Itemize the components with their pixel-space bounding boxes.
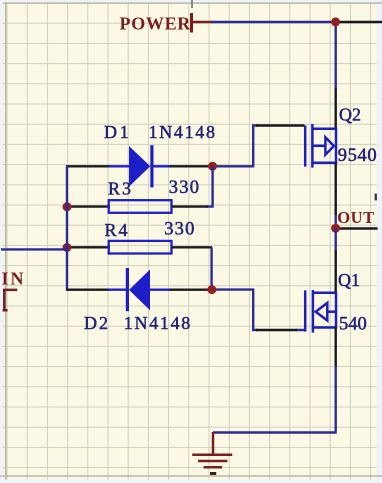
svg-text:R4: R4 xyxy=(105,220,130,240)
port OUT xyxy=(337,194,377,228)
svg-text:D1: D1 xyxy=(104,122,131,142)
svg-text:POWER: POWER xyxy=(120,13,192,33)
wire power rail navy xyxy=(211,21,336,23)
wire R3 row black right xyxy=(172,205,209,207)
resistor R4 xyxy=(109,241,172,254)
wire R3 row black left xyxy=(66,205,110,207)
resistor R3 xyxy=(109,200,172,213)
svg-text:540: 540 xyxy=(339,315,367,335)
port POWER xyxy=(120,13,213,33)
wire OUT to Q1 navy xyxy=(335,228,337,251)
pin Q1 gate black xyxy=(256,329,297,331)
svg-text:330: 330 xyxy=(169,178,200,198)
svg-text:R3: R3 xyxy=(108,179,133,199)
wire D2 row black left xyxy=(66,289,110,291)
wire D2 row black right xyxy=(170,289,213,291)
wire R4 row black right xyxy=(172,246,213,248)
diode D1 xyxy=(109,145,171,187)
wire OUT black xyxy=(336,227,378,229)
tick top edge xyxy=(191,0,193,8)
wire R4 row black left xyxy=(66,246,110,248)
wire source to OUT navy xyxy=(335,215,337,228)
pin Q1 drain black xyxy=(335,250,337,292)
top window edge strip xyxy=(0,0,382,2)
wire Q1 source to ground navy xyxy=(213,366,337,433)
pin Q1 source black xyxy=(335,328,337,368)
left window edge strip xyxy=(0,0,3,483)
pin Q2 gate black xyxy=(256,124,305,126)
wire D1 row black right xyxy=(170,165,214,167)
wire power rail black right xyxy=(336,21,382,23)
right window edge strip xyxy=(377,0,382,483)
wire left vertical navy xyxy=(66,165,68,290)
wire IN navy xyxy=(1,248,68,250)
wire jog R4 row to D2 junction navy xyxy=(210,247,212,289)
svg-text:330: 330 xyxy=(164,219,195,239)
diode D2 xyxy=(108,268,171,311)
wire Q2 gate staircase navy xyxy=(213,126,259,167)
node D1 right junction xyxy=(208,162,217,171)
node R4 left junction xyxy=(63,243,72,252)
ground xyxy=(192,432,232,467)
node OUT junction xyxy=(331,224,340,233)
node R3 left junction xyxy=(63,202,72,211)
node POWER junction xyxy=(331,17,340,26)
wire D1 row black left xyxy=(66,165,110,167)
svg-text:9540: 9540 xyxy=(338,146,377,166)
pin Q2 source black xyxy=(335,163,337,217)
pin Q2 drain black xyxy=(335,88,337,129)
svg-text:Q1: Q1 xyxy=(338,270,360,290)
sheet border lines xyxy=(5,2,7,479)
svg-text:1N4148: 1N4148 xyxy=(124,313,192,333)
transistor Q2 xyxy=(305,124,336,168)
wire Q2 drain vertical navy xyxy=(335,21,337,89)
svg-text:OUT: OUT xyxy=(337,208,375,227)
svg-text:Q2: Q2 xyxy=(339,104,361,124)
node D2 right junction xyxy=(207,285,216,294)
svg-text:1N4148: 1N4148 xyxy=(149,122,217,142)
svg-text:IN: IN xyxy=(2,268,26,288)
svg-text:D2: D2 xyxy=(84,313,110,333)
wire Q1 gate staircase navy xyxy=(213,290,305,330)
wire jog D1 junction to R3 row navy xyxy=(206,166,213,206)
transistor Q1 xyxy=(305,290,336,333)
port IN xyxy=(2,268,26,310)
